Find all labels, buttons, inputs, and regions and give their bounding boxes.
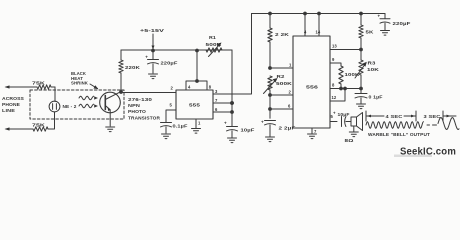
wire pin3 output to top rail <box>213 14 252 95</box>
wire 556 pin7 ground stub <box>311 128 313 134</box>
svg-text:LINE: LINE <box>2 108 15 113</box>
svg-text:1: 1 <box>198 121 201 126</box>
light arrow (lower squiggle) <box>79 104 98 108</box>
speaker 8 ohm <box>351 113 363 132</box>
wire pin13 <box>330 48 362 51</box>
label BLACK HEAT SHRINK with arrow <box>71 71 98 89</box>
svg-text:PHOTO: PHOTO <box>128 109 146 114</box>
wire pin9 corner <box>330 63 341 66</box>
pin label 1 (556) <box>289 63 292 68</box>
phototransistor emitter with arrow <box>105 106 110 127</box>
capacitor 220uF (supply bypass) <box>145 51 178 73</box>
svg-text:0.1µF: 0.1µF <box>173 124 188 129</box>
svg-text:1: 1 <box>289 63 292 68</box>
svg-text:13: 13 <box>332 44 337 49</box>
svg-text:4: 4 <box>188 84 191 89</box>
svg-text:+: + <box>333 111 336 116</box>
capacitor 0.1uF (pin5) <box>161 123 188 134</box>
wire to 556 pin2 <box>270 94 293 96</box>
svg-text:2: 2 <box>289 90 292 95</box>
pin label 5 <box>170 103 173 108</box>
label ACROSS PHONE LINE <box>2 96 24 113</box>
pin label 1 <box>198 121 201 126</box>
svg-text:8: 8 <box>209 84 212 89</box>
wire pin1 ground stub <box>195 119 197 128</box>
svg-text:8Ω: 8Ω <box>345 138 355 143</box>
ground (555 pin1) <box>192 129 201 134</box>
svg-text:9: 9 <box>332 57 335 62</box>
potentiometer R2 500K <box>264 74 294 94</box>
svg-text:SeekIC.com: SeekIC.com <box>400 146 456 158</box>
ground (0.1uF 556) <box>357 104 366 109</box>
pin label 4 (556) <box>304 30 307 35</box>
svg-text:556: 556 <box>306 85 318 90</box>
wire 556 pin4 to rail <box>304 12 307 36</box>
resistor 100K <box>339 66 361 89</box>
pin label 4 <box>188 84 191 89</box>
svg-text:SHRINK: SHRINK <box>71 81 89 86</box>
op-amp-style IC U1 555 box <box>176 90 213 119</box>
svg-text:7: 7 <box>314 129 317 134</box>
pin label 7 <box>215 98 218 103</box>
svg-text:2: 2 <box>171 86 174 91</box>
wire 4-8 reset loop <box>186 80 207 90</box>
svg-text:555: 555 <box>189 103 200 108</box>
svg-text:220K: 220K <box>125 65 141 70</box>
svg-text:6: 6 <box>215 107 218 112</box>
wire pin5 output (556) <box>330 121 337 123</box>
svg-text:6: 6 <box>288 104 291 109</box>
svg-text:2 2K: 2 2K <box>275 32 290 37</box>
svg-text:8: 8 <box>332 83 335 88</box>
dashed box black heat shrink enclosure <box>30 90 124 119</box>
svg-text:0 1µF: 0 1µF <box>369 95 383 100</box>
wire pin2-pin6 tie <box>269 90 271 118</box>
waveform gap <box>427 124 437 126</box>
ground (10uF) <box>228 138 237 143</box>
wire phone-line bottom lead with terminal arrow <box>5 127 34 130</box>
watermark SeekIC.com <box>394 146 456 158</box>
capacitor 2.2uF (timing 556) <box>261 120 296 137</box>
wire pin8 <box>330 87 362 90</box>
pin label 6 (556) <box>288 104 291 109</box>
ground (speaker) <box>349 132 358 137</box>
capacitor 10uF (timing) <box>224 102 255 138</box>
pin label 2 <box>171 86 174 91</box>
phototransistor Q1 body <box>100 92 121 113</box>
node 2.2K top <box>269 12 272 15</box>
svg-text:500K: 500K <box>276 81 293 86</box>
svg-text:+5-15V: +5-15V <box>140 28 165 34</box>
capacitor 220uF (switched rail) <box>378 14 411 31</box>
svg-text:10K: 10K <box>367 67 380 72</box>
pin label 8 (556) <box>332 83 335 88</box>
pin label 5 (556) <box>331 114 334 119</box>
wire +V rail (y50) <box>121 49 232 51</box>
wire switched supply rail (y13) <box>252 13 386 15</box>
phototransistor collector <box>105 92 120 100</box>
potentiometer R1 500K <box>206 35 223 57</box>
wire riser to pins 4-8 <box>196 50 198 81</box>
svg-text:R1: R1 <box>209 35 217 40</box>
svg-text:TRANSISTOR: TRANSISTOR <box>128 116 161 121</box>
label WARBLE BELL OUTPUT <box>368 132 430 137</box>
ground (emitter) <box>106 127 115 132</box>
svg-text:75K: 75K <box>32 81 46 86</box>
resistor R 75K (bottom) <box>32 123 48 132</box>
pin label 14 (556) <box>316 30 321 35</box>
node pin6 junction (556) <box>269 108 272 111</box>
potentiometer R3 10K <box>355 50 380 89</box>
node pin2 junction (556) <box>269 94 272 97</box>
node pin1 junction <box>269 67 272 70</box>
svg-text:12: 12 <box>332 95 337 100</box>
pin label 13 (556) <box>332 44 337 49</box>
wire to 556 pin6 <box>270 108 293 110</box>
pin label 7 (556) <box>314 129 317 134</box>
capacitor 10uF (output coupling) <box>333 111 351 127</box>
wire pin12 riser <box>330 87 346 101</box>
svg-text:220µF: 220µF <box>161 61 178 66</box>
wire pin7 <box>213 102 233 105</box>
pin label 8 <box>209 84 212 89</box>
light arrow (upper squiggle) <box>79 96 98 100</box>
pin label 12 (556) <box>332 95 337 100</box>
svg-text:3 SEC: 3 SEC <box>424 114 442 119</box>
wire neon lamp bottom lead <box>48 112 55 129</box>
capacitor 0.1uF (556) <box>355 89 383 104</box>
svg-text:4: 4 <box>304 30 307 35</box>
svg-text:5K: 5K <box>366 30 375 35</box>
svg-text:500K: 500K <box>206 42 223 47</box>
svg-text:5: 5 <box>170 103 173 108</box>
resistor R 75K (top) <box>32 81 55 90</box>
pin label 9 (556) <box>332 57 335 62</box>
waveform burst 2 <box>438 118 459 130</box>
svg-text:+: + <box>224 121 227 126</box>
wire phone-line top lead with terminal arrow <box>5 85 38 88</box>
svg-text:ACROSS: ACROSS <box>2 96 24 101</box>
node rail to 4-8 loop <box>196 49 199 52</box>
svg-text:NPN: NPN <box>128 103 140 108</box>
pin label 3 <box>215 89 218 94</box>
dimension 4 SEC <box>366 111 416 121</box>
ground (556 pin7) <box>308 134 317 139</box>
svg-text:+: + <box>378 14 381 19</box>
neon lamp NE-2 <box>49 101 60 112</box>
wire pin5 control <box>166 110 176 123</box>
svg-text:4 SEC: 4 SEC <box>386 114 404 119</box>
ground (2.2uF) <box>266 137 275 142</box>
svg-text:7: 7 <box>215 98 218 103</box>
label 8 ohm <box>345 138 355 143</box>
ground (supply bypass) <box>149 74 158 79</box>
svg-text:R3: R3 <box>368 61 377 66</box>
svg-text:3: 3 <box>215 89 218 94</box>
svg-text:10µF: 10µF <box>241 128 255 133</box>
node collector junction <box>120 91 123 94</box>
resistor 5K <box>359 12 375 49</box>
IC U2 556 box <box>293 36 330 128</box>
wire pin2 input <box>121 92 176 94</box>
label NE-2 <box>63 104 77 109</box>
waveform warble burst 1 <box>366 122 423 129</box>
ground (220uF) <box>381 31 390 36</box>
svg-text:220µF: 220µF <box>393 21 411 26</box>
dimension 3 SEC <box>424 111 457 121</box>
svg-text:10µF: 10µF <box>338 112 350 117</box>
svg-text:NE - 2: NE - 2 <box>63 104 77 109</box>
resistor 220K <box>119 50 141 92</box>
svg-text:+: + <box>261 120 264 125</box>
ground (0.1uF pin5) <box>162 134 171 139</box>
svg-text:276-130: 276-130 <box>128 97 153 102</box>
svg-text:+: + <box>145 55 148 60</box>
wire to 556 pin1 <box>270 67 293 69</box>
svg-text:75K: 75K <box>32 123 46 128</box>
label 276-130 NPN PHOTO TRANSISTOR <box>128 97 161 121</box>
wire 556 pin14 to rail <box>318 12 321 36</box>
pin label 2 (556) <box>289 90 292 95</box>
pin label 6 <box>215 107 218 112</box>
wire rail corner down to pin7/6 <box>222 50 232 125</box>
wire pin6 <box>213 111 233 114</box>
svg-text:PHONE: PHONE <box>2 102 20 107</box>
svg-text:14: 14 <box>316 30 321 35</box>
svg-text:WARBLE “BELL” OUTPUT: WARBLE “BELL” OUTPUT <box>368 132 430 137</box>
svg-text:R2: R2 <box>277 74 286 79</box>
label +5-15V supply arrow <box>140 28 165 52</box>
resistor 2.2K <box>268 14 290 69</box>
wire to neon lamp top <box>54 87 56 102</box>
